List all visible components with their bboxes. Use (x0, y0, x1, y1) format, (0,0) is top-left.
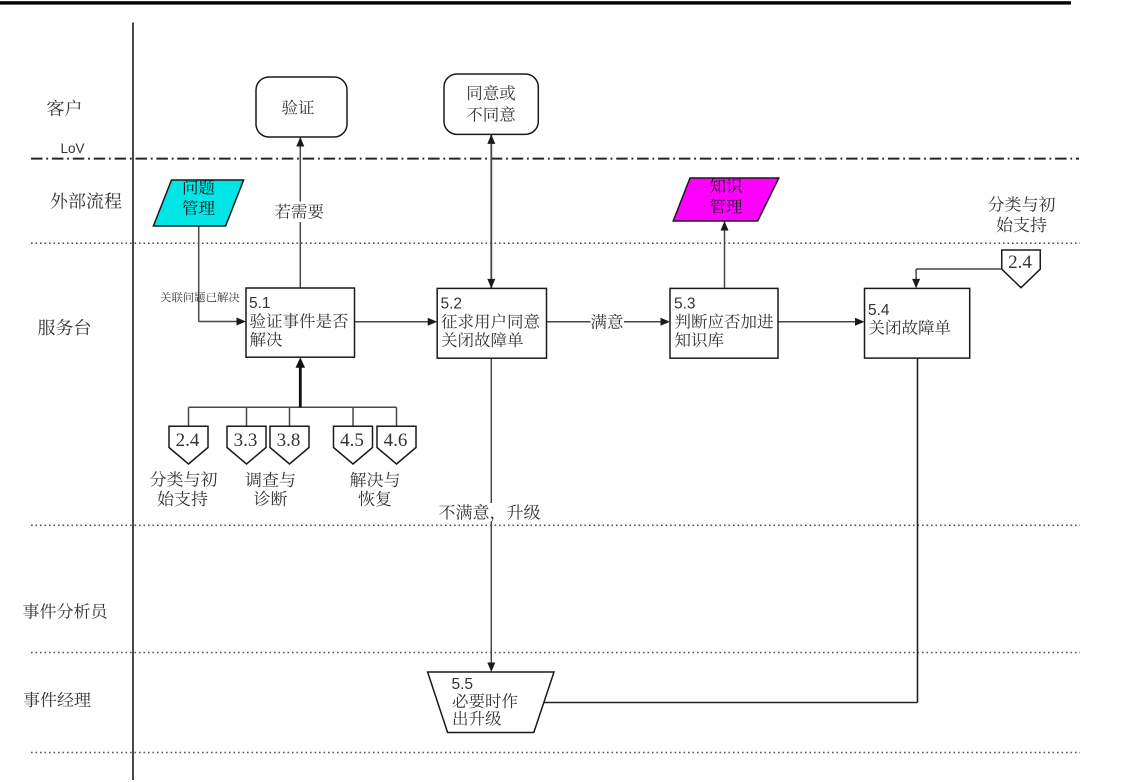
svg-text:5.5: 5.5 (452, 676, 474, 693)
svg-text:2.4: 2.4 (1008, 252, 1032, 273)
svg-text:5.1: 5.1 (249, 295, 271, 312)
svg-text:2.4: 2.4 (176, 430, 200, 451)
svg-text:4.5: 4.5 (340, 430, 364, 451)
svg-text:4.6: 4.6 (384, 430, 408, 451)
svg-text:3.3: 3.3 (234, 430, 258, 451)
svg-text:5.2: 5.2 (441, 296, 463, 313)
svg-text:5.3: 5.3 (674, 296, 696, 313)
svg-text:LoV: LoV (61, 141, 85, 156)
svg-text:5.4: 5.4 (868, 302, 890, 319)
svg-text:3.8: 3.8 (277, 430, 301, 451)
